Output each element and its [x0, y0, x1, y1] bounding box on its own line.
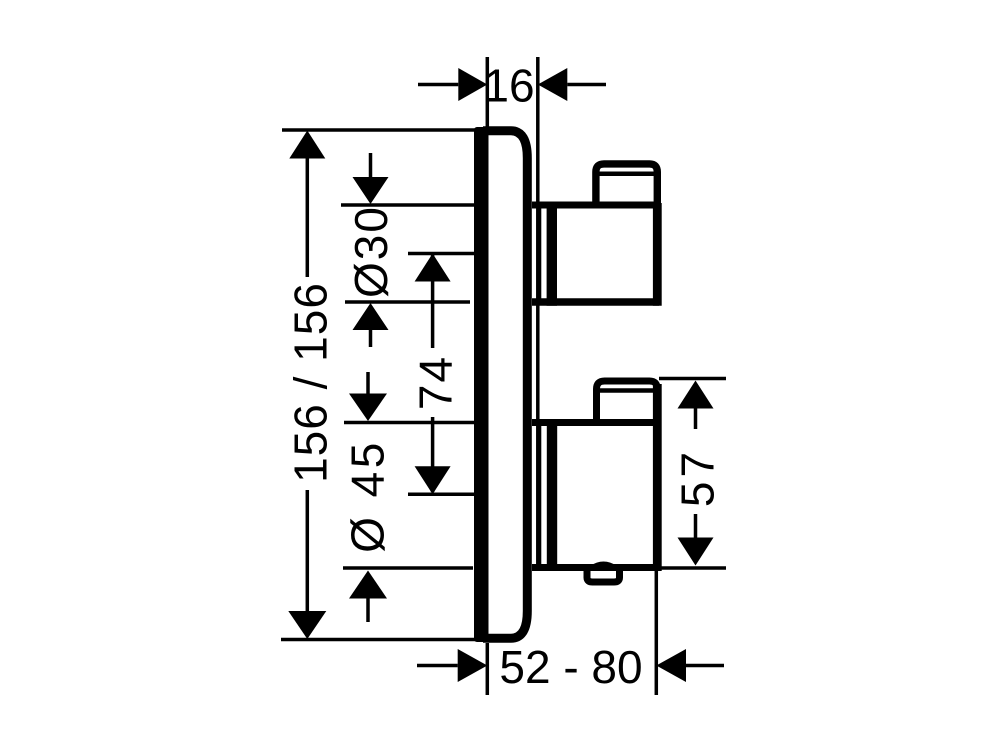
74 bottom ext line: [408, 492, 478, 496]
arrow 16 left: [458, 68, 487, 101]
O45 top ext line: [344, 421, 476, 425]
ext line 16 right / handle collar line: [536, 57, 540, 567]
arrow 156 bottom: [288, 611, 326, 639]
O30 top ext line: [341, 203, 476, 207]
ext line 16 left: [486, 57, 490, 128]
top handle left edge: [547, 202, 557, 306]
16 dim shaft right: [567, 83, 606, 87]
74 top ext line: [408, 252, 478, 256]
arrow O30 lower: [353, 303, 389, 330]
52-80 dim shaft left: [417, 664, 458, 668]
top handle tab inner line: [599, 171, 654, 176]
bottom handle bottom edge: [532, 564, 659, 571]
bottom handle collar front line: [537, 420, 542, 570]
bottom handle top edge: [532, 419, 659, 426]
wall plate left band: [474, 127, 489, 642]
arrow 52-80 left: [458, 649, 488, 682]
svg-text:52 - 80: 52 - 80: [499, 641, 642, 693]
arrow 57 top: [678, 381, 714, 409]
plate top ext line: [282, 128, 478, 132]
74 dim line: [431, 255, 435, 492]
52-80 left ext line: [486, 643, 490, 695]
bottom handle right edge: [653, 384, 662, 571]
top handle top edge: [532, 202, 659, 209]
57 bottom ext line: [659, 566, 726, 570]
57 dim line: [694, 408, 698, 538]
svg-text:156 / 156: 156 / 156: [285, 282, 337, 483]
top handle tab: [596, 164, 657, 207]
svg-text:57: 57: [672, 448, 724, 507]
arrow 74 top: [415, 254, 451, 282]
arrow 74 bottom: [415, 466, 451, 494]
top handle collar front line: [537, 202, 542, 305]
plate bottom ext line: [281, 638, 478, 642]
156 dim line: [306, 159, 310, 612]
bottom handle left edge: [547, 419, 557, 571]
bottom handle tab: [597, 381, 658, 425]
arrow O45 upper: [349, 394, 387, 422]
plate outline: [483, 131, 527, 638]
52-80 right ext line: [655, 571, 659, 695]
O30 lower shaft: [369, 329, 373, 347]
svg-text:16: 16: [483, 60, 534, 112]
arrow 57 bottom: [678, 538, 714, 566]
O30 bottom ext line: [345, 300, 470, 304]
arrow O45 lower: [349, 571, 387, 599]
16 dim shaft left: [418, 83, 458, 87]
top handle bottom edge: [532, 298, 659, 306]
52-80 dim shaft right: [686, 664, 724, 668]
O30 upper shaft: [369, 153, 373, 178]
bottom handle lever hump: [590, 562, 617, 567]
svg-text:74: 74: [410, 355, 462, 410]
O45 upper shaft: [366, 372, 370, 394]
bottom handle lever bump: [587, 569, 620, 582]
svg-text:Ø 45: Ø 45: [342, 439, 394, 553]
arrow 52-80 right: [656, 649, 686, 682]
arrow 156 top: [289, 131, 325, 159]
arrow O30 upper: [353, 177, 389, 204]
svg-text:Ø30: Ø30: [345, 205, 397, 298]
top handle right edge: [653, 203, 662, 306]
57 top ext line: [659, 377, 726, 381]
O45 lower shaft: [366, 597, 370, 622]
O45 bottom ext line: [343, 566, 473, 570]
bottom handle tab inner line: [600, 388, 654, 393]
arrow 16 right: [538, 68, 568, 101]
